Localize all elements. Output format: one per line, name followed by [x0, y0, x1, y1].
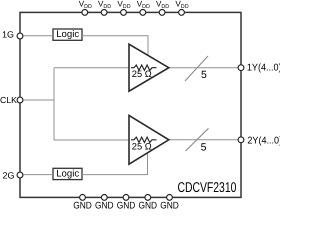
svg-text:GND: GND: [95, 200, 114, 210]
svg-text:CLK: CLK: [0, 95, 17, 105]
svg-text:GND: GND: [117, 200, 136, 210]
svg-text:1G: 1G: [2, 29, 14, 39]
svg-text:25 Ω: 25 Ω: [132, 69, 152, 79]
svg-text:Logic: Logic: [56, 168, 79, 179]
svg-text:2Y(4...0): 2Y(4...0): [247, 135, 280, 146]
svg-text:1Y(4...0): 1Y(4...0): [247, 62, 280, 73]
svg-text:Logic: Logic: [56, 29, 79, 40]
svg-text:GND: GND: [73, 200, 92, 210]
svg-text:5: 5: [201, 69, 207, 81]
svg-text:25 Ω: 25 Ω: [132, 141, 152, 151]
svg-text:GND: GND: [160, 200, 179, 210]
svg-text:CDCVF2310: CDCVF2310: [178, 180, 237, 196]
svg-text:5: 5: [201, 141, 207, 153]
svg-text:GND: GND: [139, 200, 158, 210]
svg-text:2G: 2G: [3, 171, 15, 181]
